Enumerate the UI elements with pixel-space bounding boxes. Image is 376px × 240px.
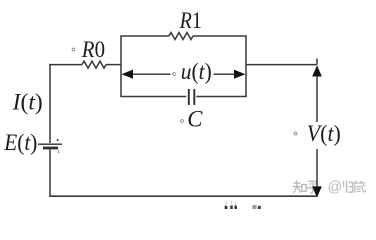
svg-text:R1: R1: [179, 8, 202, 33]
watermark glyph 知: [293, 181, 307, 193]
wire: box top edge left part: [120, 35, 169, 37]
voltage arrow V(t) lower segment with down arrowhead: [312, 149, 322, 198]
node mark before V(t): [294, 132, 297, 135]
watermark glyph 乎: [307, 181, 319, 193]
node mark before C: [181, 120, 184, 123]
wire: bottom horizontal: [49, 195, 317, 197]
node mark before R0: [72, 48, 75, 51]
svg-text:E(t): E(t): [3, 130, 37, 155]
wire: box left edge: [120, 36, 122, 97]
voltage arrow u(t) right segment with arrowhead: [214, 70, 246, 79]
capacitor C plates: [189, 89, 195, 105]
svg-text:u(t): u(t): [181, 59, 212, 84]
wire: box top edge right part: [193, 35, 247, 37]
wire: box bottom edge right part: [196, 96, 246, 98]
wire: R0 to box: [106, 64, 121, 66]
wire: stub above right junction: [316, 59, 318, 65]
battery source E(t) symbol: [38, 139, 62, 153]
node mark before u(t): [173, 73, 176, 76]
wire: right horizontal from box: [246, 64, 317, 66]
resistor R0 zigzag: [82, 61, 106, 68]
svg-text:C: C: [187, 106, 203, 132]
svg-text:I(t): I(t): [12, 90, 43, 115]
wire: left vertical upper segment: [49, 64, 51, 143]
watermark glyph 归: [344, 181, 353, 193]
voltage arrow u(t) left segment with arrowhead: [122, 70, 171, 79]
wire: box right edge: [245, 36, 247, 97]
svg-text:@: @: [328, 180, 343, 196]
resistor R1 zigzag: [169, 33, 193, 40]
caption remnant at bottom edge: [226, 201, 259, 209]
svg-text:V(t): V(t): [307, 121, 341, 146]
wire: left vertical lower segment: [49, 150, 51, 197]
wire: top-left horizontal to R0: [49, 64, 82, 66]
svg-text:R0: R0: [81, 37, 105, 62]
wire: box bottom edge left part: [120, 96, 186, 98]
voltage arrow V(t) upper segment with up arrowhead: [312, 65, 322, 122]
watermark glyph 藏: [353, 181, 366, 193]
